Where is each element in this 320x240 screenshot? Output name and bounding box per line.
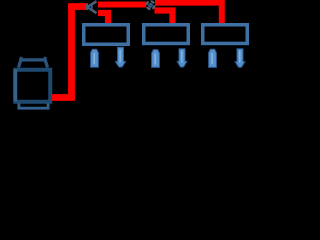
- tank lid tab left: [20, 57, 23, 60]
- up arrow A1 (below box B1): [91, 49, 99, 67]
- tank body left-edge highlight: [13, 70, 17, 102]
- connector J2 (right quick-connect fitting): [147, 1, 155, 9]
- up arrow A5 (below box B3): [209, 49, 217, 67]
- down arrow A6 (below box B3): [235, 49, 245, 67]
- box B1 (left radiator unit): [84, 25, 129, 45]
- down arrow A4 (below box B2): [177, 49, 187, 67]
- connector J1 (left quick-connect fitting): [87, 1, 97, 13]
- tank T1 (boiler, bottom-left): [15, 57, 50, 108]
- tank lid: [19, 60, 48, 68]
- wire: red branch from junction2 down to box B2: [155, 11, 173, 25]
- box B3 (right radiator unit): [203, 25, 248, 44]
- tank body: [15, 70, 50, 102]
- up arrow A3 (below box B2): [152, 50, 160, 68]
- wire: red pipe from tank to first junction: [52, 7, 88, 98]
- down arrow A2 (below box B1): [115, 47, 125, 67]
- box B2 (middle radiator unit): [144, 25, 189, 44]
- wire: red branch from junction1 down to box B1: [98, 13, 108, 24]
- wire: red pipe junction2 to right elbow and down into box B3: [155, 3, 222, 24]
- wire: red pipe junction1 to junction2: [98, 2, 146, 8]
- tank lid tab right: [44, 57, 47, 60]
- tank base: [19, 104, 48, 109]
- arrow highlight strokes: [94, 50, 240, 65]
